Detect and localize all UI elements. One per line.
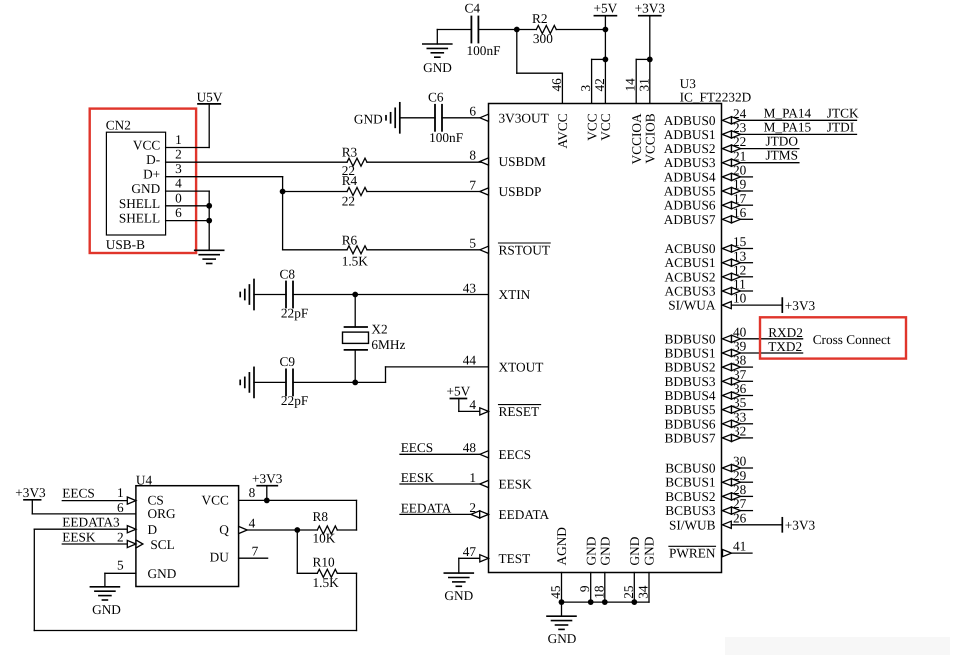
svg-text:Cross Connect: Cross Connect	[813, 332, 891, 347]
svg-text:C9: C9	[280, 354, 296, 369]
svg-text:SHELL: SHELL	[119, 211, 160, 226]
resistor R6	[342, 232, 369, 268]
svg-text:ADBUS3: ADBUS3	[664, 155, 716, 170]
net label EECS	[62, 486, 95, 501]
svg-text:USB-B: USB-B	[106, 237, 145, 252]
junction	[206, 203, 212, 209]
power U5V	[197, 90, 223, 105]
junction	[647, 57, 653, 63]
svg-text:22pF: 22pF	[281, 393, 308, 408]
ground	[90, 587, 121, 617]
svg-text:GND: GND	[423, 60, 452, 75]
wire RESET pin 4	[459, 410, 489, 412]
svg-text:1: 1	[117, 485, 124, 500]
svg-text:AGND: AGND	[554, 527, 569, 566]
svg-text:100nF: 100nF	[467, 43, 501, 58]
wire EECS pin 48	[400, 453, 489, 455]
junction	[559, 599, 565, 605]
U3 pin 43 XTIN	[463, 280, 531, 302]
power +5V	[594, 1, 618, 30]
svg-text:1.5K: 1.5K	[313, 575, 340, 590]
pin number 3	[175, 161, 182, 176]
wire	[556, 29, 605, 31]
U3 pin 37 BDBUS3	[665, 367, 753, 389]
wire	[400, 117, 435, 119]
svg-text:C6: C6	[428, 90, 444, 105]
wire D+ net	[166, 177, 283, 250]
svg-text:8: 8	[249, 485, 256, 500]
svg-text:EESK: EESK	[401, 470, 435, 485]
svg-text:31: 31	[636, 78, 651, 91]
svg-text:7: 7	[469, 177, 476, 192]
svg-text:D+: D+	[143, 167, 160, 182]
svg-text:X2: X2	[371, 322, 387, 337]
wire to 3V3OUT pin 6	[442, 117, 489, 119]
svg-text:ACBUS2: ACBUS2	[665, 269, 716, 284]
resistor R10	[297, 555, 339, 590]
U3 pin 47 TEST	[463, 544, 531, 566]
U3 bottom pin 45 AGND	[548, 527, 569, 602]
svg-text:18: 18	[591, 585, 606, 599]
svg-text:BDBUS3: BDBUS3	[665, 374, 716, 389]
U4 pin 4 Q	[239, 516, 318, 534]
wire RSTOUT branch	[283, 249, 347, 251]
net label EESK	[401, 470, 435, 485]
svg-text:R10: R10	[313, 555, 336, 570]
svg-text:3: 3	[175, 161, 182, 176]
resistor R4	[342, 173, 367, 208]
svg-text:SI/WUB: SI/WUB	[669, 517, 716, 532]
svg-text:GND: GND	[131, 181, 160, 196]
svg-text:44: 44	[463, 353, 477, 368]
junction	[294, 527, 300, 533]
U3 pin 10 SI/WUA	[668, 291, 815, 313]
svg-text:R8: R8	[313, 509, 329, 524]
svg-text:3V3OUT: 3V3OUT	[499, 110, 549, 125]
svg-text:BCBUS0: BCBUS0	[665, 461, 716, 476]
svg-text:6MHz: 6MHz	[371, 337, 405, 352]
U3 pin 19 ADBUS5	[664, 177, 753, 199]
U3 bottom pin 9 GND	[577, 536, 598, 602]
wire EEDATA pin 2	[400, 513, 489, 515]
svg-text:43: 43	[463, 280, 477, 295]
svg-text:BDBUS2: BDBUS2	[665, 360, 716, 375]
svg-text:4: 4	[175, 176, 182, 191]
net label EECS	[401, 440, 434, 455]
svg-text:ORG: ORG	[148, 506, 176, 521]
svg-text:GND: GND	[354, 112, 383, 127]
U3 top pin 31 VCCIOB	[636, 78, 657, 163]
U3 pin 32 BDBUS7	[665, 424, 753, 446]
svg-text:45: 45	[548, 585, 563, 599]
resistor R3	[342, 144, 367, 178]
capacitor C8	[280, 266, 309, 320]
svg-text:48: 48	[463, 440, 477, 455]
svg-text:GND: GND	[92, 602, 121, 617]
svg-text:USBDP: USBDP	[499, 184, 542, 199]
svg-text:JTMS: JTMS	[766, 148, 799, 163]
svg-text:GND: GND	[583, 536, 598, 565]
wire	[437, 30, 471, 45]
svg-text:SCL: SCL	[150, 537, 174, 552]
svg-text:42: 42	[592, 78, 607, 91]
junction	[631, 599, 637, 605]
ground	[547, 602, 577, 646]
svg-text:100nF: 100nF	[429, 130, 463, 145]
svg-text:R4: R4	[342, 173, 358, 188]
wire D+ branch	[283, 191, 347, 193]
svg-text:300: 300	[533, 31, 553, 46]
svg-text:CN2: CN2	[106, 117, 131, 132]
U3 top pin 14 VCCIOA	[623, 78, 644, 165]
wire EESK pin 1	[400, 483, 489, 485]
IC U4 body	[136, 473, 239, 587]
svg-text:ADBUS0: ADBUS0	[664, 113, 716, 128]
ground	[195, 250, 224, 263]
svg-text:D: D	[148, 522, 158, 537]
svg-text:+3V3: +3V3	[15, 485, 46, 500]
U3 pin 36 BDBUS4	[665, 381, 753, 403]
U3 pin 15 ACBUS0	[665, 234, 753, 256]
U3 bottom pin 18 GND	[591, 536, 612, 602]
wire XTOUT net pin 44	[293, 367, 489, 383]
svg-text:4: 4	[249, 516, 256, 531]
U4 pin 2 SCL	[117, 529, 143, 548]
svg-text:R2: R2	[532, 11, 548, 26]
wire TEST pin 47	[459, 558, 489, 573]
svg-text:BCBUS2: BCBUS2	[665, 489, 715, 504]
resistor R2	[532, 11, 556, 46]
junction	[280, 189, 286, 195]
svg-text:D-: D-	[146, 152, 160, 167]
pin number 2	[175, 147, 182, 162]
ground	[423, 44, 452, 75]
svg-text:ADBUS5: ADBUS5	[664, 184, 716, 199]
svg-text:+3V3: +3V3	[785, 518, 816, 533]
svg-text:22: 22	[342, 193, 355, 208]
U4 pin 3 D	[113, 515, 136, 533]
U4 pin 7 DU	[239, 544, 268, 559]
svg-text:26: 26	[733, 510, 747, 525]
svg-text:GND: GND	[598, 536, 613, 565]
svg-text:9: 9	[577, 585, 592, 592]
svg-text:22pF: 22pF	[281, 306, 308, 321]
wire SHELL pin0	[166, 205, 210, 207]
resistor R8	[313, 509, 338, 546]
crystal X2	[343, 295, 406, 383]
svg-text:GND: GND	[548, 631, 577, 646]
wire VCCIOA branch pin 14	[636, 59, 650, 103]
svg-text:EESK: EESK	[499, 477, 533, 492]
svg-text:3: 3	[578, 85, 593, 92]
wire GND pin4	[166, 191, 210, 250]
svg-text:ACBUS1: ACBUS1	[665, 255, 716, 270]
net label EESK	[62, 529, 96, 544]
U3 pin 22 ADBUS2	[664, 134, 799, 157]
wire SHELL pin6	[166, 220, 210, 222]
junction	[352, 292, 358, 298]
U3 pin 27 BCBUS3	[665, 496, 752, 518]
svg-text:JTCK: JTCK	[827, 105, 859, 120]
pin number 6	[175, 205, 182, 220]
svg-text:ACBUS3: ACBUS3	[665, 284, 716, 299]
svg-text:USBDM: USBDM	[499, 154, 546, 169]
U3 top pin 46 AVCC	[549, 78, 570, 149]
svg-text:DU: DU	[210, 549, 230, 564]
ground	[444, 573, 473, 603]
wire VCC rail pin 42	[604, 30, 606, 104]
svg-text:EECS: EECS	[62, 486, 95, 501]
svg-text:5: 5	[469, 236, 476, 251]
power +3V3	[252, 471, 283, 500]
svg-text:SI/WUA: SI/WUA	[668, 298, 716, 313]
U3 pin 26 SI/WUB	[669, 510, 816, 532]
U3 pin 39 BDBUS1	[665, 339, 803, 361]
svg-text:BDBUS7: BDBUS7	[665, 430, 716, 445]
U3 pin 11 ACBUS3	[665, 277, 753, 299]
U3 pin 13 ACBUS1	[665, 248, 753, 270]
svg-text:GND: GND	[642, 536, 657, 565]
svg-text:XTIN: XTIN	[499, 287, 531, 302]
capacitor C9	[280, 354, 309, 408]
power +3V3	[15, 485, 46, 514]
wire D- net	[166, 161, 347, 163]
power +3V3	[635, 1, 666, 60]
svg-text:M_PA15: M_PA15	[764, 119, 812, 134]
svg-text:34: 34	[636, 585, 651, 599]
svg-text:ADBUS4: ADBUS4	[664, 169, 716, 184]
wire to RSTOUT pin 5	[367, 249, 489, 251]
svg-text:4: 4	[469, 397, 476, 412]
U3 pin 41 PWREN	[669, 539, 752, 561]
svg-text:R3: R3	[342, 144, 358, 159]
pin number 1	[175, 132, 182, 147]
junction	[603, 27, 609, 33]
wire feedback loop	[34, 529, 356, 630]
U3 pin 5 RSTOUT	[469, 236, 550, 258]
svg-text:1: 1	[469, 470, 476, 485]
svg-text:1.5K: 1.5K	[342, 254, 369, 269]
svg-text:VCC: VCC	[598, 113, 613, 140]
op-amp U3 IC_FT2232D body	[489, 76, 752, 573]
U3 pin 30 BCBUS0	[665, 454, 752, 476]
U4 pin 6 ORG	[117, 500, 124, 515]
decorative	[725, 637, 950, 655]
svg-text:BDBUS0: BDBUS0	[665, 331, 716, 346]
svg-text:JTDO: JTDO	[766, 134, 799, 149]
pin number 4	[175, 176, 182, 191]
svg-text:R6: R6	[342, 232, 358, 247]
svg-text:BDBUS6: BDBUS6	[665, 416, 716, 431]
junction	[264, 498, 270, 504]
svg-text:EECS: EECS	[401, 440, 434, 455]
wire to USBDM pin 8	[367, 161, 489, 163]
svg-text:U5V: U5V	[197, 90, 223, 105]
wire	[296, 530, 298, 573]
U3 pin 8 USBDM	[469, 147, 546, 169]
junction	[603, 57, 609, 63]
wire	[337, 500, 356, 530]
U3 pin 23 ADBUS1	[664, 119, 857, 142]
svg-text:10: 10	[733, 291, 747, 306]
svg-text:+3V3: +3V3	[785, 298, 816, 313]
svg-text:BDBUS5: BDBUS5	[665, 402, 716, 417]
svg-text:10K: 10K	[313, 531, 336, 546]
U3 pin 12 ACBUS2	[665, 262, 753, 284]
U4 pin 8 VCC	[239, 485, 357, 500]
svg-text:BCBUS1: BCBUS1	[665, 475, 715, 490]
U3 bottom pin 25 GND	[621, 536, 642, 602]
svg-text:M_PA14: M_PA14	[764, 105, 812, 120]
svg-text:Q: Q	[219, 522, 229, 537]
wire VCC branch pin 3	[592, 59, 606, 103]
net label EEDATA	[401, 500, 452, 515]
U3 pin 38 BDBUS2	[665, 353, 753, 375]
svg-text:SHELL: SHELL	[119, 196, 160, 211]
wire VCCIOB rail pin 31	[649, 59, 651, 103]
connector CN2 USB-B	[106, 117, 166, 252]
U3 pin 21 ADBUS3	[664, 148, 799, 171]
svg-text:U4: U4	[136, 473, 153, 488]
svg-text:47: 47	[463, 544, 477, 559]
U3 pin 33 BDBUS6	[665, 409, 753, 431]
svg-text:PWREN: PWREN	[669, 546, 716, 561]
ground	[354, 103, 400, 133]
junction	[588, 599, 594, 605]
svg-text:0: 0	[175, 190, 182, 205]
wire ORG pin 6	[32, 513, 136, 515]
U3 pin 24 ADBUS0	[664, 105, 859, 128]
svg-text:VCCIOB: VCCIOB	[643, 113, 658, 163]
svg-text:ADBUS7: ADBUS7	[664, 212, 716, 227]
svg-text:7: 7	[252, 544, 259, 559]
junction	[514, 27, 520, 33]
svg-text:EESK: EESK	[62, 529, 96, 544]
U3 pin 17 ADBUS6	[664, 191, 753, 213]
ground	[240, 280, 254, 310]
U3 pin 48 EECS	[463, 440, 531, 462]
capacitor C4	[465, 1, 501, 58]
U3 pin 1 EESK	[469, 470, 532, 492]
svg-text:+3V3: +3V3	[635, 1, 666, 16]
svg-text:RESET: RESET	[499, 404, 540, 419]
svg-text:RXD2: RXD2	[768, 325, 803, 340]
svg-text:ACBUS0: ACBUS0	[665, 241, 716, 256]
wire GND bus	[562, 601, 650, 603]
svg-text:41: 41	[733, 539, 746, 554]
svg-text:BCBUS3: BCBUS3	[665, 503, 716, 518]
svg-text:6: 6	[469, 104, 476, 119]
svg-text:VCC: VCC	[202, 492, 229, 507]
svg-text:IC_FT2232D: IC_FT2232D	[680, 90, 752, 105]
U3 bottom pin 34 GND	[636, 536, 657, 602]
svg-text:46: 46	[549, 78, 564, 92]
label Cross Connect	[813, 332, 891, 347]
wire	[254, 381, 286, 383]
svg-text:RSTOUT: RSTOUT	[499, 242, 550, 257]
highlight box Cross Connect	[760, 317, 906, 358]
svg-text:GND: GND	[444, 588, 473, 603]
svg-text:BDBUS4: BDBUS4	[665, 388, 716, 403]
svg-text:C4: C4	[465, 1, 481, 16]
U3 pin 35 BDBUS5	[665, 395, 753, 417]
U3 pin 20 ADBUS4	[664, 163, 753, 185]
svg-text:BDBUS1: BDBUS1	[665, 346, 716, 361]
wire AVCC pin 46	[517, 30, 563, 104]
wire	[478, 29, 536, 31]
wire XTIN net pin 43	[293, 294, 489, 296]
U4 pin 1 CS	[117, 485, 136, 504]
svg-text:JTDI: JTDI	[827, 119, 854, 134]
U3 pin 4 RESET	[469, 397, 540, 419]
wire EEDATA to D	[34, 528, 127, 530]
svg-text:5: 5	[117, 558, 124, 573]
junction	[206, 218, 212, 224]
svg-text:GND: GND	[148, 566, 177, 581]
svg-text:AVCC: AVCC	[555, 113, 570, 148]
svg-text:TXD2: TXD2	[768, 339, 802, 354]
junction	[602, 599, 608, 605]
svg-text:VCC: VCC	[584, 113, 599, 140]
svg-text:6: 6	[175, 205, 182, 220]
wire to USBDP pin 7	[367, 191, 489, 193]
U3 pin 29 BCBUS1	[665, 468, 752, 490]
U3 pin 7 USBDP	[469, 177, 541, 199]
svg-text:ADBUS2: ADBUS2	[664, 141, 716, 156]
wire EESK to SCL	[62, 543, 127, 545]
svg-text:TEST: TEST	[499, 551, 531, 566]
wire	[254, 294, 286, 296]
U3 top pin 42 VCC	[592, 78, 613, 141]
pin number 0	[175, 190, 182, 205]
power +5V	[447, 384, 471, 412]
U4 pin 5 GND	[105, 558, 136, 587]
capacitor C6	[428, 90, 463, 146]
svg-text:6: 6	[117, 500, 124, 515]
svg-text:XTOUT: XTOUT	[499, 359, 544, 374]
svg-text:EEDATA: EEDATA	[62, 515, 113, 530]
junction	[352, 380, 358, 386]
U3 pin 16 ADBUS7	[664, 205, 753, 227]
U3 pin 28 BCBUS2	[665, 482, 752, 504]
svg-text:2: 2	[175, 147, 182, 162]
U3 top pin 3 VCC	[578, 85, 599, 141]
svg-text:+5V: +5V	[594, 1, 618, 16]
svg-text:ADBUS6: ADBUS6	[664, 198, 716, 213]
U3 pin 2 EEDATA	[469, 500, 549, 522]
svg-text:+3V3: +3V3	[252, 471, 283, 486]
U3 pin 44 XTOUT	[463, 353, 544, 375]
svg-text:C8: C8	[280, 266, 296, 281]
svg-text:VCC: VCC	[133, 138, 160, 153]
svg-text:EEDATA: EEDATA	[499, 507, 550, 522]
svg-text:EEDATA: EEDATA	[401, 500, 452, 515]
U3 pin 6 3V3OUT	[469, 104, 548, 126]
svg-text:25: 25	[621, 585, 636, 599]
svg-text:8: 8	[469, 147, 476, 162]
wire VCC to U5V	[166, 104, 210, 148]
svg-text:+5V: +5V	[447, 384, 471, 399]
svg-text:1: 1	[175, 132, 182, 147]
svg-text:2: 2	[117, 529, 124, 544]
highlight box CN2	[90, 109, 196, 253]
ground	[240, 367, 254, 397]
svg-text:3: 3	[113, 515, 120, 530]
wire EECS to CS	[62, 500, 127, 502]
svg-text:GND: GND	[627, 536, 642, 565]
U3 pin 40 BDBUS0	[665, 324, 803, 346]
net label EEDATA	[62, 515, 113, 530]
